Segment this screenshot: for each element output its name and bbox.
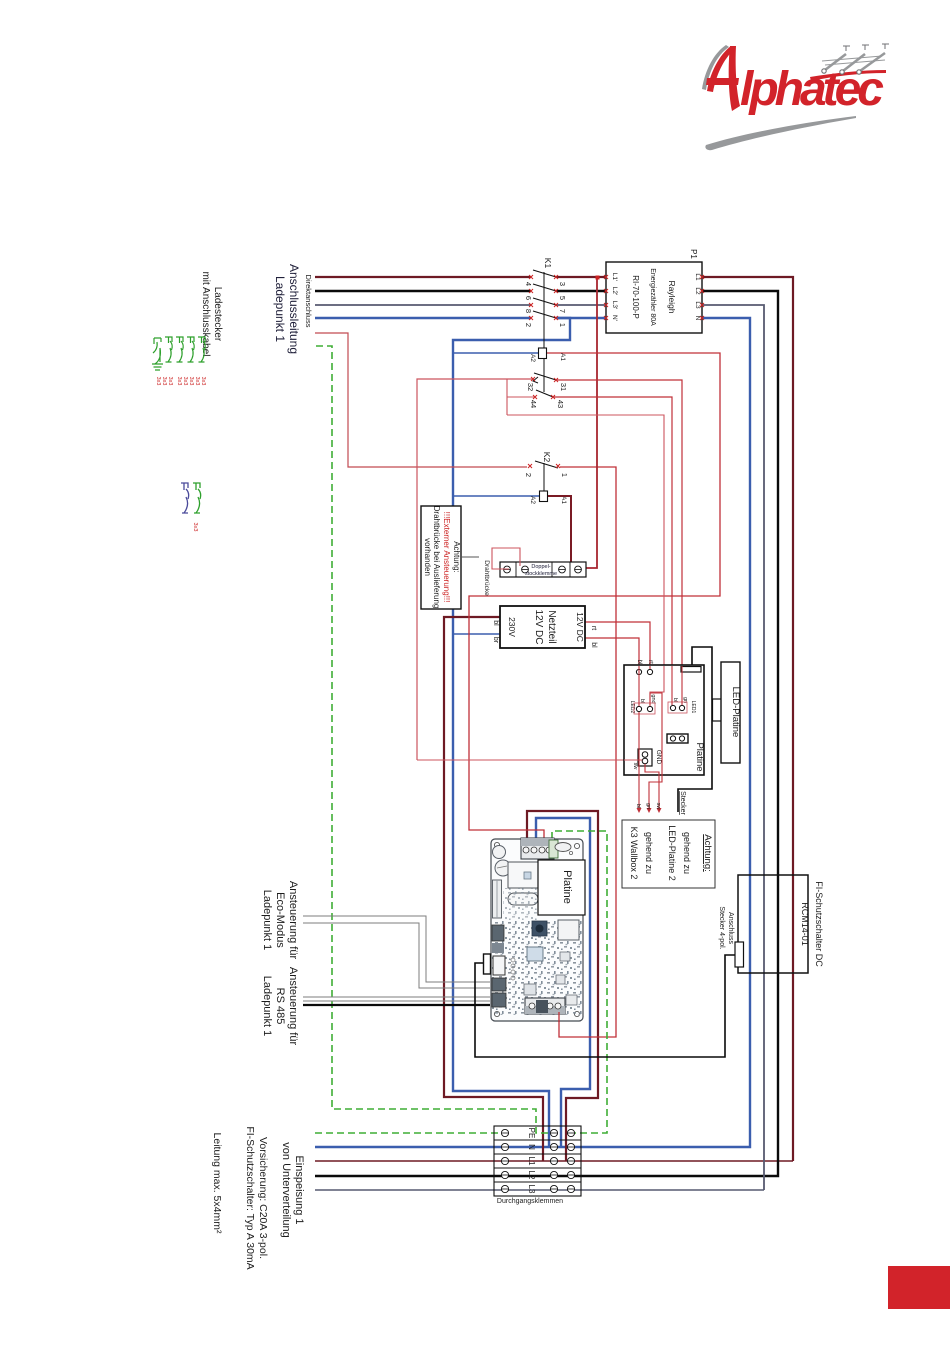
svg-text:gnd: gnd bbox=[650, 694, 656, 703]
big caps top-left bbox=[493, 846, 506, 859]
contacts 2..5 bbox=[165, 337, 205, 362]
svg-text:3x3: 3x3 bbox=[194, 377, 200, 386]
PCB 4-pol connector on left edge bbox=[484, 954, 491, 974]
svg-text:Platine: Platine bbox=[561, 870, 573, 904]
svg-text:A2: A2 bbox=[529, 354, 536, 362]
svg-text:7: 7 bbox=[558, 309, 567, 313]
small red outline marks around LED pins bbox=[668, 702, 687, 713]
wire aux44 link and LED2 feed (light red) bbox=[507, 379, 664, 705]
mid ICs bbox=[527, 947, 543, 961]
wire L2 black bbox=[315, 291, 778, 1176]
gray shadow of big A bbox=[702, 45, 729, 90]
second plug symbol pair (blue+green) bbox=[181, 483, 201, 513]
svg-text:Drahtbrücke: Drahtbrücke bbox=[483, 560, 490, 596]
wire aux31 red down to LED1 gn bbox=[557, 380, 682, 706]
svg-text:2: 2 bbox=[524, 473, 533, 477]
svg-text:PE: PE bbox=[527, 1128, 536, 1139]
svg-text:K2: K2 bbox=[542, 452, 552, 463]
svg-text:FI-Schutzschalter DC: FI-Schutzschalter DC bbox=[814, 881, 824, 967]
big red A left crescent bbox=[707, 46, 735, 92]
power supply Netzteil 12V DC bbox=[492, 606, 597, 648]
svg-text:Netzteil: Netzteil bbox=[546, 610, 557, 643]
svg-text:Ladepunkt 1: Ladepunkt 1 bbox=[273, 276, 287, 342]
svg-text:Direktanschluss: Direktanschluss bbox=[304, 275, 313, 328]
svg-text:44: 44 bbox=[529, 400, 538, 408]
svg-text:5: 5 bbox=[558, 296, 567, 300]
terminal Doppelstockklemme bbox=[492, 548, 586, 577]
mains terminal top bbox=[521, 838, 554, 859]
svg-text:mit Anschlusskabel: mit Anschlusskabel bbox=[200, 271, 211, 356]
label box Platine (overlay) bbox=[538, 860, 585, 915]
svg-text:6: 6 bbox=[524, 296, 533, 300]
svg-text:Drahtbrücke bei Auslieferung: Drahtbrücke bei Auslieferung bbox=[432, 506, 441, 609]
svg-text:Einspeisung 1: Einspeisung 1 bbox=[293, 1155, 305, 1224]
label Ladestecker mit Anschlusskabel bbox=[200, 271, 223, 356]
energy meter P1 Rayleigh bbox=[604, 249, 704, 333]
label Anschlussleitung Ladepunkt 1 bbox=[273, 264, 301, 354]
label box LED-Platine bbox=[713, 662, 742, 763]
red pin-number text under plug bbox=[155, 377, 206, 386]
svg-text:A2: A2 bbox=[529, 496, 536, 504]
svg-text:FI-Schutzschalter: Typ A 30mA: FI-Schutzschalter: Typ A 30mA bbox=[244, 1126, 256, 1269]
svg-text:Eco-Modus: Eco-Modus bbox=[274, 892, 286, 948]
svg-text:N': N' bbox=[611, 315, 618, 321]
svg-text:br: br bbox=[492, 637, 499, 644]
aux contact 44/43 bbox=[536, 390, 553, 397]
buzzer dark bbox=[532, 921, 547, 936]
svg-text:31: 31 bbox=[559, 383, 568, 391]
wire maroon Netzteil-230V/PCB-L1 path bbox=[444, 617, 543, 1161]
svg-text:Leitung max. 5x4mm²: Leitung max. 5x4mm² bbox=[211, 1133, 223, 1234]
svg-text:stockklemme: stockklemme bbox=[525, 571, 557, 577]
wire aux32 red left-down bbox=[417, 379, 532, 760]
svg-text:3x3: 3x3 bbox=[188, 377, 194, 386]
svg-text:RS 485: RS 485 bbox=[274, 988, 286, 1025]
label Ansteuerung fuer RS 485 bbox=[261, 967, 299, 1046]
contact pin labels bbox=[524, 282, 567, 327]
svg-text:LED1: LED1 bbox=[690, 701, 696, 714]
svg-text:Achtung:: Achtung: bbox=[452, 541, 461, 573]
pins bl rt top-left bbox=[636, 669, 641, 674]
gray swoosh bbox=[705, 116, 856, 150]
wire aux43 red down to LED1 bl bbox=[554, 397, 672, 706]
svg-text:8: 8 bbox=[524, 309, 533, 313]
svg-text:K1: K1 bbox=[543, 258, 553, 269]
svg-text:3x3: 3x3 bbox=[192, 522, 198, 531]
label Einspeisung 1 von Unterverteilung bbox=[280, 1142, 305, 1237]
svg-text:Ansteuerung für: Ansteuerung für bbox=[287, 881, 299, 960]
wire black LED board to Stecker bbox=[678, 647, 712, 812]
svg-text:L3': L3' bbox=[611, 301, 618, 309]
GND 2-pin box bbox=[638, 749, 652, 766]
svg-text:LED-Platine 2: LED-Platine 2 bbox=[667, 825, 677, 881]
wire node A1/32/44 to PCB terminal 3 (red) bbox=[469, 353, 720, 839]
fuse oval bbox=[508, 893, 538, 905]
aux contact 32/31 bbox=[534, 373, 556, 380]
svg-text:bl: bl bbox=[672, 698, 678, 702]
svg-text:3x3: 3x3 bbox=[161, 377, 167, 386]
D-sub oval top right bbox=[555, 843, 571, 852]
svg-text:bl: bl bbox=[639, 699, 645, 703]
main contact blades bbox=[533, 270, 556, 318]
svg-text:Ladepunkt 1: Ladepunkt 1 bbox=[261, 976, 273, 1037]
svg-text:sw: sw bbox=[632, 763, 638, 770]
LED2 pins bbox=[636, 706, 641, 711]
LED driver board Platine bbox=[624, 660, 705, 816]
svg-text:sw: sw bbox=[655, 803, 661, 810]
corner holes bbox=[494, 842, 499, 847]
meter terminal marks bbox=[604, 275, 704, 320]
FI-Schutzschalter DC RCM14-01 bbox=[718, 875, 824, 973]
svg-text:4: 4 bbox=[524, 282, 533, 286]
svg-text:A1: A1 bbox=[559, 353, 566, 361]
wire Netzteil 12V rt/bl red outputs bbox=[585, 622, 650, 669]
wire black FI-plug to PCB connector bbox=[475, 955, 739, 1057]
wire L1 tap red vertical to Doppelstockklemme bbox=[581, 278, 597, 568]
wire N blue rail bbox=[315, 318, 750, 1147]
wire K2-A1 to Doppelstockklemme bbox=[548, 496, 571, 562]
jumper Drahtbruecke bbox=[492, 548, 520, 569]
svg-text:Ladestecker: Ladestecker bbox=[212, 287, 223, 342]
note box Achtung gehend zu bbox=[622, 820, 715, 888]
wire L1 maroon: feed, meter loop, trunk, terminal row bbox=[315, 277, 793, 1161]
svg-text:Achtung:: Achtung: bbox=[702, 834, 713, 872]
bottom terminal strip bbox=[525, 998, 565, 1014]
svg-text:bl: bl bbox=[590, 642, 597, 648]
wire control-pilot thin red feed to K2 bbox=[315, 333, 527, 467]
red footer block bbox=[888, 1266, 950, 1309]
svg-text:3x3: 3x3 bbox=[200, 377, 206, 386]
wire N stubs to coils (blue) bbox=[453, 353, 540, 634]
svg-text:Energiezähler 80A: Energiezähler 80A bbox=[649, 268, 656, 326]
svg-text:3x3: 3x3 bbox=[155, 377, 161, 386]
svg-text:12V DC: 12V DC bbox=[533, 609, 544, 644]
terminal block Durchgangsklemmen bbox=[494, 1126, 581, 1205]
svg-text:3x3: 3x3 bbox=[182, 377, 188, 386]
wire K2-out red to PCB bottom terminal bbox=[559, 467, 616, 1037]
svg-text:RI-70-100-P: RI-70-100-P bbox=[631, 275, 640, 319]
svg-text:GND: GND bbox=[655, 750, 662, 765]
red arrows to note box bbox=[637, 808, 662, 813]
svg-text:L1': L1' bbox=[611, 273, 618, 281]
LED1 pins bbox=[670, 705, 675, 710]
svg-text:3x3: 3x3 bbox=[176, 377, 182, 386]
svg-text:L2: L2 bbox=[527, 1171, 536, 1180]
svg-text:L1: L1 bbox=[527, 1157, 536, 1166]
svg-text:1: 1 bbox=[560, 473, 569, 477]
svg-text:32: 32 bbox=[526, 383, 535, 391]
big red A right stroke bbox=[729, 46, 740, 111]
svg-text:230V: 230V bbox=[507, 617, 517, 637]
svg-text:rt: rt bbox=[590, 626, 597, 630]
2-pin connector bbox=[667, 734, 688, 743]
coil K2 bbox=[540, 491, 548, 502]
terminal marks bbox=[529, 275, 558, 320]
svg-text:L2': L2' bbox=[611, 287, 618, 295]
svg-text:gehend zu: gehend zu bbox=[644, 832, 654, 874]
svg-text:LED-Platine: LED-Platine bbox=[730, 687, 741, 738]
svg-text:Ansteuerung für: Ansteuerung für bbox=[287, 967, 299, 1046]
logo Alphatec bbox=[702, 44, 889, 150]
svg-text:12V DC: 12V DC bbox=[575, 612, 585, 642]
coil K1 A1/A2 bbox=[539, 348, 547, 359]
svg-text:rt: rt bbox=[647, 660, 653, 664]
svg-text:gn: gn bbox=[645, 803, 651, 809]
PE contact bbox=[153, 338, 161, 364]
wire L3 slate gray bbox=[315, 305, 764, 1190]
relay block bbox=[508, 862, 539, 888]
svg-text:N: N bbox=[527, 1144, 536, 1150]
svg-text:gehend zu: gehend zu bbox=[682, 832, 692, 874]
svg-text:3: 3 bbox=[558, 282, 567, 286]
heatsink left bbox=[493, 880, 502, 918]
small circles column bbox=[511, 958, 515, 962]
svg-text:Ladepunkt 1: Ladepunkt 1 bbox=[261, 890, 273, 951]
left edge connectors bbox=[492, 925, 504, 941]
svg-text:A1: A1 bbox=[560, 496, 567, 504]
svg-text:Doppel-: Doppel- bbox=[531, 564, 550, 570]
svg-text:L3: L3 bbox=[694, 301, 701, 309]
wire PE green dashed (left long run) bbox=[315, 346, 607, 1133]
svg-text:L2: L2 bbox=[694, 287, 701, 295]
svg-text:L1: L1 bbox=[694, 273, 701, 281]
wire Eco-Modus gray pair bbox=[303, 916, 490, 988]
svg-text:Anschluss: Anschluss bbox=[727, 912, 734, 944]
svg-text:bl: bl bbox=[492, 620, 499, 626]
svg-text:43: 43 bbox=[556, 400, 565, 408]
red wires inside/below board bbox=[624, 666, 682, 809]
big square IC right bbox=[558, 920, 579, 940]
svg-text:3x3: 3x3 bbox=[167, 377, 173, 386]
svg-text:vorhanden: vorhanden bbox=[423, 538, 432, 576]
svg-text:von Unterverteilung: von Unterverteilung bbox=[280, 1142, 292, 1237]
svg-text:Rayleigh: Rayleigh bbox=[667, 280, 677, 313]
label Ansteuerung fuer Eco-Modus bbox=[261, 881, 299, 960]
connector plug contacts (Ladestecker symbols, green) bbox=[152, 337, 205, 370]
t swash bar bbox=[810, 70, 886, 81]
crane icon: three poles bbox=[822, 53, 885, 71]
svg-text:K3 Wallbox 2: K3 Wallbox 2 bbox=[629, 827, 639, 880]
svg-text:Anschlussleitung: Anschlussleitung bbox=[287, 264, 301, 354]
contactor K2 bbox=[524, 452, 571, 562]
svg-text:Durchgangsklemmen: Durchgangsklemmen bbox=[497, 1198, 563, 1205]
connector strip top right bbox=[681, 667, 701, 673]
actuator link bbox=[543, 272, 545, 348]
smd noise field bbox=[492, 920, 582, 1015]
svg-text:Platine: Platine bbox=[694, 742, 705, 771]
svg-text:Stecker: Stecker bbox=[679, 791, 686, 815]
contactor K1 bbox=[524, 258, 568, 408]
svg-text:1: 1 bbox=[558, 323, 567, 327]
A crossbar bbox=[706, 78, 739, 85]
svg-text:Vorsicherung: C20A 3-pol.: Vorsicherung: C20A 3-pol. bbox=[257, 1137, 269, 1259]
wire RS485 pair + black bbox=[303, 997, 490, 1005]
note box Achtung externer Ansteuerung bbox=[421, 506, 490, 609]
svg-text:Stecker 4-pol.: Stecker 4-pol. bbox=[718, 906, 725, 949]
svg-text:P1: P1 bbox=[689, 249, 698, 259]
label Vorsicherung / FI-Schutzschalter bbox=[244, 1126, 269, 1269]
svg-text:RCM14-01: RCM14-01 bbox=[800, 902, 810, 946]
svg-text:!!!Externer Ansteuerung!!!: !!!Externer Ansteuerung!!! bbox=[442, 512, 451, 603]
wire sw light red to LED GND bbox=[417, 759, 645, 761]
svg-text:2: 2 bbox=[524, 323, 533, 327]
junction L1 tap bbox=[596, 276, 600, 280]
svg-text:bl: bl bbox=[635, 804, 641, 808]
svg-text:bl: bl bbox=[636, 660, 642, 665]
svg-text:L3: L3 bbox=[527, 1185, 536, 1194]
